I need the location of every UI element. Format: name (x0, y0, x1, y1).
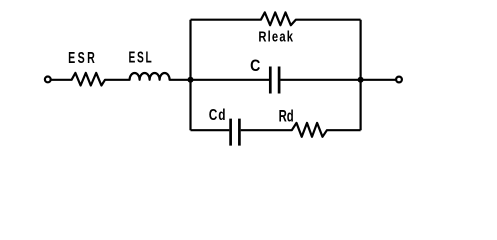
svg-text:ESL: ESL (129, 48, 154, 66)
svg-text:ESR: ESR (68, 49, 97, 66)
svg-text:Rd: Rd (279, 106, 294, 125)
svg-text:Cd: Cd (209, 105, 227, 123)
svg-text:Rleak: Rleak (258, 28, 294, 45)
svg-text:C: C (250, 57, 260, 75)
